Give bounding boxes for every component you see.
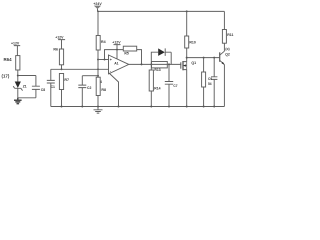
svg-text:C8: C8 xyxy=(41,88,45,92)
svg-text:R64: R64 xyxy=(4,57,13,62)
wire R7 to rail xyxy=(61,90,63,107)
resistor R15 xyxy=(203,58,205,72)
power terminal +12V mid xyxy=(58,40,65,49)
node rail R7 xyxy=(61,106,63,108)
power terminal +12V op-amp xyxy=(114,45,121,50)
resistor R11 xyxy=(222,30,226,44)
resistor R7 xyxy=(59,74,63,90)
resistor R4 xyxy=(96,36,100,51)
power terminal +12V left xyxy=(14,46,20,56)
transistor Q2 xyxy=(220,51,225,64)
wire op-amp V+ pin xyxy=(116,50,118,59)
node feedback / output xyxy=(141,63,143,65)
wire R6 to line A xyxy=(61,65,63,70)
wire feedback to output xyxy=(137,50,142,65)
svg-text:R11: R11 xyxy=(227,33,233,37)
wire base line xyxy=(187,57,220,59)
wire output line xyxy=(129,63,181,65)
mosfet Q1 xyxy=(181,58,187,72)
node R15 tap xyxy=(203,57,205,59)
capacitor C2 xyxy=(78,76,86,107)
diode VD bypass branch xyxy=(151,48,171,64)
svg-text:+12V: +12V xyxy=(11,41,20,45)
svg-text:A1: A1 xyxy=(114,62,118,66)
capacitor C1 xyxy=(47,69,55,106)
node bus / plus input xyxy=(97,59,99,61)
svg-text:R5: R5 xyxy=(124,51,128,55)
wire R8 to rail xyxy=(97,96,99,107)
wire R15 to rail xyxy=(203,87,205,107)
wire R14 to rail xyxy=(150,91,152,107)
wire node to C8 xyxy=(18,75,36,77)
svg-text:C2: C2 xyxy=(87,86,91,90)
op-amp A1 triangle xyxy=(109,55,129,74)
node rail mosfet xyxy=(186,106,188,108)
wire VCC bus to R4 xyxy=(97,11,99,35)
wire right bus from top rail xyxy=(223,11,225,29)
svg-text:+12V: +12V xyxy=(55,35,64,39)
node bus / line B xyxy=(97,75,99,77)
node rail C9 xyxy=(213,106,215,108)
op-amp ground pin wire xyxy=(109,73,119,107)
zener diode Z1 xyxy=(13,82,22,98)
wire R10 bus from top rail xyxy=(186,11,188,36)
svg-text:+12V: +12V xyxy=(112,41,121,45)
wire bus below R4 xyxy=(97,50,99,77)
wire plus input line xyxy=(98,59,109,61)
resistor R14 xyxy=(150,64,152,70)
node bus / line A xyxy=(97,68,99,70)
node rail C7 xyxy=(168,106,170,108)
node rail R8 xyxy=(97,106,99,108)
wire mosfet source to rail xyxy=(186,72,188,107)
node top rail / R10 bus xyxy=(186,10,188,12)
resistor R5 xyxy=(123,46,136,51)
wire feedback up xyxy=(105,50,124,60)
svg-text:R14: R14 xyxy=(154,87,160,91)
node R6 / line A xyxy=(61,68,63,70)
node rail R15 xyxy=(203,106,205,108)
node feedback tap xyxy=(104,59,106,61)
svg-text:Z1: Z1 xyxy=(23,84,27,88)
node rail C2 xyxy=(81,106,83,108)
svg-text:(o): (o) xyxy=(225,47,229,51)
wire loop bottom xyxy=(18,97,36,99)
svg-text:(17): (17) xyxy=(2,73,10,78)
resistor R64 xyxy=(16,56,20,70)
svg-text:R6: R6 xyxy=(53,47,58,51)
wire collector up xyxy=(223,43,225,51)
wire R64 to node xyxy=(17,70,19,82)
node C9 tap xyxy=(213,57,215,59)
wire top rail xyxy=(98,10,224,12)
node R14 / output xyxy=(150,63,152,65)
svg-text:+: + xyxy=(110,57,113,62)
svg-text:R4: R4 xyxy=(101,40,106,44)
svg-text:C7: C7 xyxy=(173,84,177,88)
wire bottom rail xyxy=(51,106,225,108)
resistor R13 xyxy=(152,62,168,68)
capacitor C9 xyxy=(211,58,217,107)
capacitor C8 xyxy=(32,76,40,98)
resistor R8 xyxy=(96,77,100,95)
wire R10 to drain node xyxy=(186,48,188,58)
power terminal VCC top xyxy=(94,6,101,12)
capacitor C7 xyxy=(168,63,170,65)
node drain / base line xyxy=(186,57,188,59)
svg-text:C9: C9 xyxy=(208,77,212,81)
svg-text:R7: R7 xyxy=(64,78,69,82)
svg-text:R10: R10 xyxy=(189,40,195,44)
ground left xyxy=(14,98,22,104)
node rail R14 xyxy=(150,106,152,108)
node power / feedback xyxy=(116,49,118,51)
node test point xyxy=(17,75,19,77)
svg-text:C1: C1 xyxy=(51,85,55,89)
wire emitter down xyxy=(223,65,225,107)
node top rail / VCC bus xyxy=(97,11,99,13)
svg-text:R13: R13 xyxy=(154,68,160,72)
wire line B (C2 branch) xyxy=(82,75,98,77)
svg-text:4: 4 xyxy=(100,80,102,84)
svg-text:+24V: +24V xyxy=(93,2,102,6)
ground main xyxy=(94,107,103,114)
resistor R6 xyxy=(59,49,63,65)
wire line A (inverting input line) xyxy=(51,68,109,70)
svg-text:Q2: Q2 xyxy=(225,52,230,56)
node rail op-amp gnd xyxy=(118,106,120,108)
svg-text:R8: R8 xyxy=(101,88,106,92)
svg-text:54: 54 xyxy=(208,82,212,86)
svg-text:Q1: Q1 xyxy=(191,61,196,65)
resistor R10 xyxy=(185,36,189,48)
